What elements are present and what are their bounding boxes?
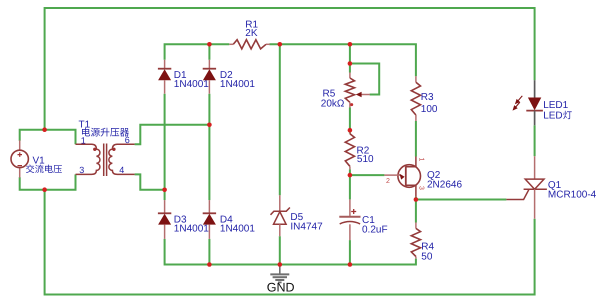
wire Q2 to R4 xyxy=(415,197,417,223)
junction dot secondary top xyxy=(207,123,212,128)
T1 secondary winding xyxy=(109,144,135,174)
wire D5 to bus xyxy=(279,236,281,264)
wire R1 row right xyxy=(269,44,416,76)
svg-text:2N2646: 2N2646 xyxy=(427,180,462,191)
svg-text:1N4001: 1N4001 xyxy=(220,79,255,90)
junction dot V1 top xyxy=(42,127,47,132)
diode D4 xyxy=(203,200,216,239)
diode D1 xyxy=(158,60,171,94)
Q2 emitter lead xyxy=(384,174,400,176)
wire R2 to C1 node xyxy=(349,169,351,199)
wire T1 pin6 to D2 node xyxy=(135,125,210,145)
svg-text:1: 1 xyxy=(417,158,424,162)
junction dot R5-R2 xyxy=(348,128,353,133)
wire D4 to bus xyxy=(208,239,210,265)
svg-text:GND: GND xyxy=(267,280,295,294)
resistor R1 xyxy=(229,43,233,45)
svg-text:100: 100 xyxy=(421,104,438,115)
T1 primary winding xyxy=(76,144,100,174)
junction dot R5 top xyxy=(348,42,353,47)
wire V1 bottom xyxy=(20,174,76,189)
svg-text:6: 6 xyxy=(125,135,130,145)
junction dot bus GND xyxy=(278,262,283,267)
capacitor C1 xyxy=(349,199,351,216)
voltage source V1 xyxy=(11,140,28,177)
svg-text:50: 50 xyxy=(421,251,433,262)
wire T1 pin4 to D3 node xyxy=(135,174,165,189)
transformer T1 xyxy=(76,144,135,177)
junction dot D5 top xyxy=(278,42,283,47)
wire R5 top xyxy=(349,44,351,72)
ground symbol xyxy=(270,265,289,283)
svg-text:1N4001: 1N4001 xyxy=(220,224,255,235)
junction dot secondary bottom xyxy=(162,188,167,193)
junction dot bus C1 xyxy=(348,262,353,267)
T1 core xyxy=(104,144,107,177)
wire emitter row xyxy=(350,174,385,176)
wire LED anode xyxy=(534,125,536,156)
svg-text:MCR100-4: MCR100-4 xyxy=(548,189,597,200)
wire D5 top column xyxy=(279,44,281,195)
wire V1 top xyxy=(20,130,76,145)
resistor R4 xyxy=(415,223,417,229)
svg-text:LED: LED xyxy=(543,111,562,122)
junction dot gate row xyxy=(414,197,419,202)
R5 wiper arrow xyxy=(360,94,370,96)
svg-text:3: 3 xyxy=(417,186,424,190)
wire bottom border xyxy=(45,190,535,295)
wire R5 wiper loop xyxy=(350,64,379,95)
LED1 emission arrows xyxy=(513,96,522,110)
junction dot D2 top xyxy=(207,42,212,47)
svg-text:1N4001: 1N4001 xyxy=(174,224,209,235)
svg-text:1: 1 xyxy=(81,135,86,145)
svg-text:3: 3 xyxy=(79,165,84,175)
wire R3 to Q2 xyxy=(415,121,417,157)
wire D1-D3 column xyxy=(164,94,166,200)
junction dot wiper xyxy=(348,61,353,66)
svg-text:T1: T1 xyxy=(79,119,91,130)
svg-text:510: 510 xyxy=(357,154,374,165)
potentiometer R5 xyxy=(349,73,351,79)
junction dot bus D4 xyxy=(207,262,212,267)
LED1 xyxy=(513,80,543,125)
label 交流电压 xyxy=(26,164,62,173)
UJT Q2 xyxy=(384,157,420,197)
wire top border xyxy=(45,8,535,130)
svg-text:LED1: LED1 xyxy=(543,100,568,111)
svg-text:V1: V1 xyxy=(33,156,46,167)
wire gate row xyxy=(416,199,507,201)
svg-text:20kΩ: 20kΩ xyxy=(321,99,345,110)
wire R5 to R2 xyxy=(349,108,351,134)
label 电源升压器 xyxy=(82,128,129,137)
svg-text:4: 4 xyxy=(119,165,124,175)
wire ground bus xyxy=(165,239,416,265)
C1 plus sign xyxy=(351,209,356,214)
junction dot V1 bottom xyxy=(42,187,47,192)
wire D2 top xyxy=(208,44,210,60)
zener diode D5 xyxy=(271,195,290,236)
svg-text:0.2uF: 0.2uF xyxy=(362,224,388,235)
wire R1 row left xyxy=(165,44,230,60)
resistor R3 xyxy=(415,76,417,82)
SCR Q1 xyxy=(506,156,547,219)
junction dot emitter xyxy=(348,173,353,178)
svg-text:1N4001: 1N4001 xyxy=(174,79,209,90)
diode D3 xyxy=(158,200,171,239)
svg-text:IN4747: IN4747 xyxy=(290,222,323,233)
svg-text:R3: R3 xyxy=(421,92,434,103)
wire C1 to bus xyxy=(349,240,351,264)
diode D2 xyxy=(203,60,216,94)
T1 polarity dot right xyxy=(112,148,115,151)
T1 polarity dot left xyxy=(93,148,96,151)
wire D2-D4 column xyxy=(208,94,210,200)
resistor R2 xyxy=(349,130,351,134)
svg-text:2K: 2K xyxy=(245,28,258,39)
svg-text:2: 2 xyxy=(386,178,390,185)
